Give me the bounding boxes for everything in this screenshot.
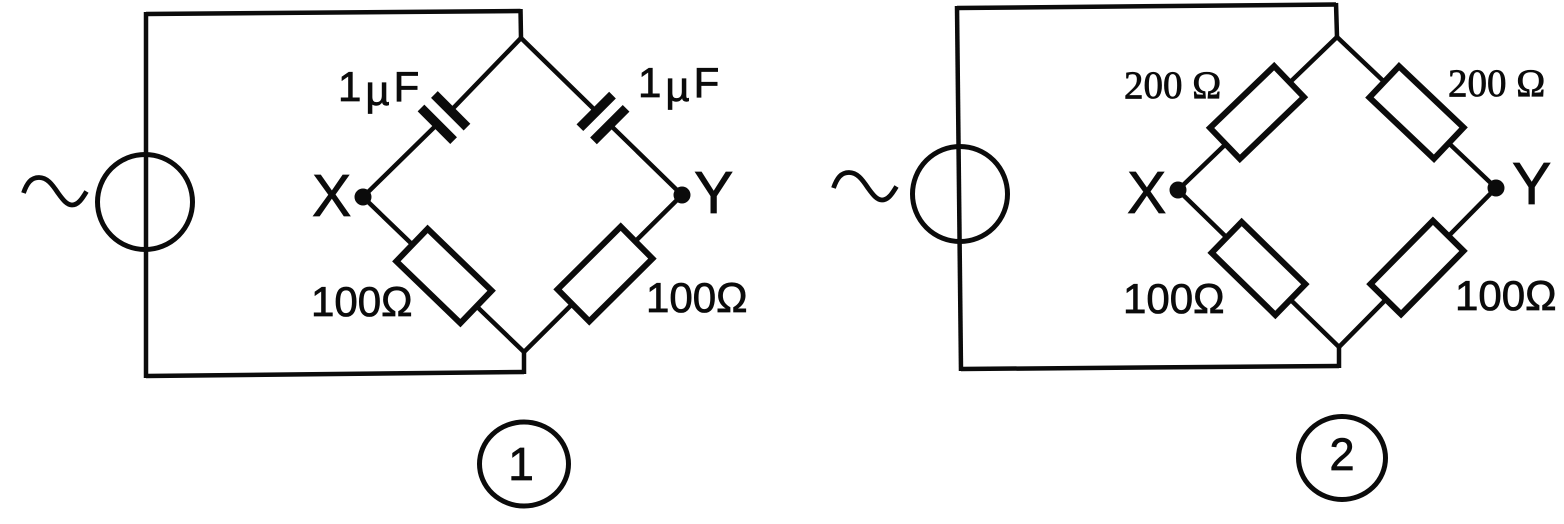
wire: circuit 1 arm apex to capacitor C-left bbox=[451, 38, 521, 111]
wire: circuit 1 top stub to bridge apex bbox=[518, 9, 523, 38]
svg-text:100Ω: 100Ω bbox=[311, 278, 412, 325]
capacitor 1µF left plate A bbox=[434, 95, 467, 128]
svg-text:100Ω: 100Ω bbox=[1455, 272, 1556, 319]
resistor 200Ω upper-right (circuit 2) bbox=[1369, 66, 1463, 158]
node Y dot (circuit 1) bbox=[674, 187, 691, 204]
svg-text:1µF: 1µF bbox=[338, 63, 419, 114]
svg-text:100Ω: 100Ω bbox=[646, 274, 747, 321]
resistor 100Ω lower-right (circuit 2) bbox=[1370, 221, 1463, 315]
svg-text:X: X bbox=[312, 163, 351, 229]
svg-text:200 Ω: 200 Ω bbox=[1124, 64, 1221, 107]
ac source circle (circuit 2) bbox=[913, 147, 1008, 242]
wire: apex to node X (circuit 2) bbox=[1178, 37, 1337, 190]
svg-text:Y: Y bbox=[1512, 151, 1551, 217]
wire: circuit 2 bottom bbox=[961, 366, 1339, 369]
resistor 100Ω lower-left (circuit 1) bbox=[396, 229, 491, 323]
node X dot (circuit 1) bbox=[355, 189, 372, 206]
capacitor 1µF left plate B bbox=[421, 108, 454, 141]
wire: circuit 2 top bbox=[957, 5, 1336, 9]
ac sine squiggle (circuit 1) bbox=[24, 178, 87, 206]
wire: apex to node Y (circuit 2) bbox=[1337, 37, 1496, 188]
wire: circuit 2 top stub to bridge apex bbox=[1336, 3, 1337, 37]
wire: circuit 1 left (through source) bbox=[144, 12, 149, 378]
node Y dot (circuit 2) bbox=[1488, 180, 1505, 197]
svg-text:200 Ω: 200 Ω bbox=[1448, 62, 1545, 105]
wire: node X to bridge bottom (circuit 2) bbox=[1178, 190, 1339, 347]
svg-text:100Ω: 100Ω bbox=[1123, 275, 1224, 322]
svg-text:2: 2 bbox=[1329, 429, 1354, 480]
resistor 100Ω lower-left (circuit 2) bbox=[1212, 222, 1306, 315]
wire: circuit 1 bottom stub to bridge bottom node bbox=[522, 352, 527, 374]
wire: circuit 2 bottom stub to bridge bottom node bbox=[1337, 347, 1342, 368]
node X dot (circuit 2) bbox=[1170, 182, 1187, 199]
label circle figure 2 bbox=[1299, 417, 1386, 500]
wire: capacitor C-left to node X bbox=[363, 124, 437, 197]
wire: node Y to bridge bottom (circuit 1) bbox=[524, 195, 682, 352]
resistor 100Ω lower-right (circuit 1) bbox=[558, 227, 653, 322]
capacitor 1µF right plate B bbox=[594, 108, 627, 141]
svg-text:Y: Y bbox=[694, 160, 733, 226]
label circle figure 1 bbox=[480, 422, 569, 506]
wire: circuit 1 bottom bbox=[146, 372, 524, 376]
wire: circuit 2 left (through source) bbox=[957, 6, 961, 371]
capacitor 1µF right plate A bbox=[580, 95, 613, 128]
wire: node Y to bridge bottom (circuit 2) bbox=[1339, 188, 1496, 347]
wire: circuit 1 top bbox=[146, 11, 521, 14]
wire: capacitor C-right to node Y bbox=[610, 125, 682, 195]
ac sine squiggle (circuit 2) bbox=[834, 173, 897, 201]
wire: circuit 1 arm apex to capacitor C-right bbox=[521, 38, 596, 111]
ac source circle (circuit 1) bbox=[98, 155, 193, 250]
svg-text:1: 1 bbox=[508, 438, 534, 490]
wire: node X to bridge bottom (circuit 1) bbox=[363, 197, 524, 352]
svg-text:X: X bbox=[1127, 160, 1166, 226]
resistor 200Ω upper-left (circuit 2) bbox=[1210, 66, 1304, 159]
svg-text:1µF: 1µF bbox=[638, 59, 719, 110]
